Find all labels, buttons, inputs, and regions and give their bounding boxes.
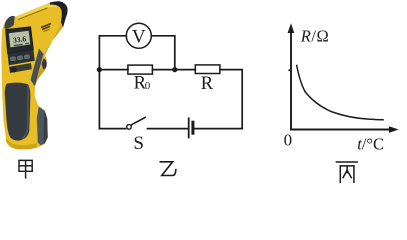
button panel <box>8 50 35 66</box>
shading dark-yellow along front edge <box>33 25 63 86</box>
lower control row <box>9 63 32 73</box>
gray piece shadow <box>44 111 48 144</box>
wire: voltmeter branch left <box>99 35 126 37</box>
svg-text:33.6: 33.6 <box>13 34 27 45</box>
black muzzle rim <box>50 1 68 27</box>
wire: left vertical <box>98 36 100 129</box>
R-t curve <box>297 65 384 120</box>
svg-text:0: 0 <box>284 130 293 149</box>
svg-text:S: S <box>133 133 144 154</box>
wire: main horizontal left segment <box>99 69 128 71</box>
wire: between R0 and R <box>152 69 195 71</box>
voltmeter U1 circle <box>126 23 151 48</box>
tick on R axis <box>288 69 291 71</box>
grip highlight edge <box>22 86 28 139</box>
svg-text:0: 0 <box>145 80 151 92</box>
resistor R0 box <box>128 65 152 74</box>
switch S lever <box>131 117 145 124</box>
svg-text:V: V <box>132 26 146 47</box>
svg-text:R/Ω: R/Ω <box>300 27 329 46</box>
trigger dark strip <box>31 49 44 87</box>
wire: R to right corner, right vertical <box>220 70 242 129</box>
junction node left <box>97 67 102 72</box>
battery short plate <box>191 122 194 133</box>
x axis arrowhead <box>389 126 399 133</box>
top highlight strip <box>16 3 59 20</box>
dark seam under top shell <box>18 8 48 20</box>
thermometer body (yellow shell) <box>1 2 67 150</box>
button 2 <box>17 56 22 60</box>
battery long plate <box>188 118 190 137</box>
resistor R box <box>195 65 220 74</box>
svg-text:t/°C: t/°C <box>357 135 384 154</box>
y axis arrowhead <box>288 23 295 33</box>
label 甲 <box>19 160 32 178</box>
wire: bottom left to switch <box>99 128 125 130</box>
round button <box>10 67 17 73</box>
button 1 <box>10 57 15 61</box>
junction node right <box>172 67 177 72</box>
wire: switch to battery <box>148 128 188 130</box>
LCD digits <box>13 34 30 46</box>
LCD screen <box>9 31 31 48</box>
y axis R <box>290 27 292 130</box>
brand logo text on yellow face <box>41 24 51 30</box>
LCD bezel <box>6 27 34 54</box>
label 丙 <box>336 162 357 182</box>
wire: voltmeter branch right <box>151 36 175 70</box>
wire: battery to right corner <box>195 128 243 130</box>
switch S pivot circle <box>127 125 132 130</box>
svg-text:R: R <box>201 74 214 94</box>
trigger knob <box>42 59 47 70</box>
handle rubber grip <box>5 83 31 141</box>
dark back corner of head <box>4 16 14 29</box>
x axis t <box>290 129 394 131</box>
label 乙 <box>160 162 176 176</box>
button 3 <box>24 55 29 59</box>
bottom yellow base shading <box>6 139 38 150</box>
battery-cover gray piece <box>37 107 48 146</box>
